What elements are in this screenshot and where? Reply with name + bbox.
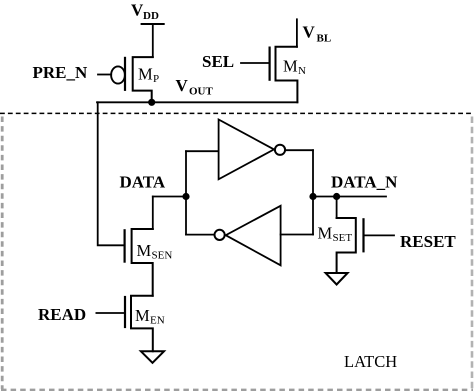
latch box gray dashed border xyxy=(1,117,473,391)
latch box top dashed line xyxy=(0,112,471,114)
power VBL xyxy=(303,23,332,45)
wire latch right vertical xyxy=(312,150,314,234)
junction DATA_N right xyxy=(334,194,339,199)
wire top inverter input xyxy=(186,150,219,152)
wire bottom inverter output xyxy=(186,234,214,236)
wire RESET lead xyxy=(364,234,395,236)
label M_N xyxy=(283,57,306,78)
wire VDD to M_P source xyxy=(152,24,154,57)
label M_EN xyxy=(135,306,165,327)
wire SEL lead xyxy=(241,62,270,64)
svg-text:M: M xyxy=(138,65,153,84)
svg-text:DATA_N: DATA_N xyxy=(331,173,398,192)
svg-text:LATCH: LATCH xyxy=(344,352,397,371)
wire V_OUT to M_SEN gate xyxy=(98,102,125,245)
wire latch left vertical xyxy=(185,151,187,234)
transistor M_SEN xyxy=(125,229,153,296)
wire PRE_N lead xyxy=(98,74,111,76)
svg-text:M: M xyxy=(318,224,333,243)
svg-text:DATA: DATA xyxy=(120,172,166,191)
wire bottom inverter input xyxy=(281,234,313,236)
net V_OUT xyxy=(176,76,214,98)
svg-text:M: M xyxy=(283,57,298,76)
inverter U2 (bottom, left-pointing) xyxy=(215,206,281,265)
svg-text:V: V xyxy=(303,23,316,42)
junction V_OUT xyxy=(149,100,154,105)
label M_P xyxy=(138,65,159,86)
svg-text:READ: READ xyxy=(38,305,86,324)
wire top inverter output xyxy=(286,149,313,151)
label M_SET xyxy=(318,224,353,245)
transistor M_N xyxy=(270,47,298,103)
svg-text:SEN: SEN xyxy=(152,250,173,262)
ground (M_EN source) xyxy=(141,351,164,363)
wire DATA to M_SEN drain xyxy=(152,197,154,230)
svg-text:SET: SET xyxy=(333,232,353,244)
svg-text:P: P xyxy=(153,73,159,85)
svg-text:EN: EN xyxy=(150,315,165,327)
wire READ lead xyxy=(96,312,125,314)
svg-text:DD: DD xyxy=(143,10,159,22)
junction DATA_N left xyxy=(310,194,315,199)
junction DATA xyxy=(183,194,188,199)
power VDD xyxy=(131,1,164,25)
svg-text:M: M xyxy=(135,306,150,325)
svg-text:BL: BL xyxy=(317,33,332,45)
wire DATA_N to M_SET drain xyxy=(336,197,338,219)
svg-text:SEL: SEL xyxy=(202,52,234,71)
wire DATA_N xyxy=(313,196,386,198)
transistor M_EN xyxy=(125,296,153,352)
wire VBL to M_N drain xyxy=(296,19,298,47)
svg-text:M: M xyxy=(137,241,152,260)
label M_SEN xyxy=(137,241,173,262)
transistor M_SET xyxy=(337,218,364,273)
svg-text:V: V xyxy=(176,76,189,95)
svg-text:OUT: OUT xyxy=(189,86,214,98)
svg-text:N: N xyxy=(298,65,306,77)
inverter U1 (top, right-pointing) xyxy=(219,120,286,180)
wire V_OUT xyxy=(97,101,297,103)
svg-text:RESET: RESET xyxy=(400,232,456,251)
svg-text:PRE_N: PRE_N xyxy=(33,63,89,82)
ground (M_SET source) xyxy=(326,273,348,285)
wire DATA xyxy=(153,196,186,198)
transistor M_P xyxy=(111,57,153,102)
